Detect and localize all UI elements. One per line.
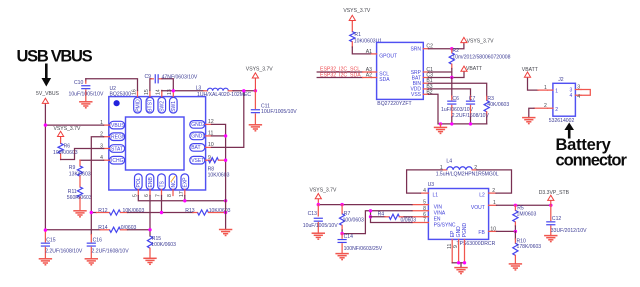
capacitor C14 bbox=[338, 234, 383, 254]
svg-text:R1: R1 bbox=[354, 32, 361, 38]
capacitor C12 bbox=[546, 205, 587, 235]
svg-text:EP: EP bbox=[450, 230, 456, 237]
J2 pin 4 bbox=[570, 93, 581, 100]
svg-text:10UF/1005/10V: 10UF/1005/10V bbox=[261, 109, 297, 115]
svg-text:D3.3VP_STB: D3.3VP_STB bbox=[539, 190, 570, 196]
svg-text:1: 1 bbox=[555, 88, 558, 94]
ground below C12 bbox=[544, 236, 557, 242]
svg-text:100K/0603: 100K/0603 bbox=[151, 242, 176, 248]
svg-text:1M/0603: 1M/0603 bbox=[517, 211, 537, 217]
svg-text:SW1: SW1 bbox=[171, 101, 177, 112]
svg-text:10K/0603: 10K/0603 bbox=[208, 172, 230, 178]
U2 pin 12 GND2 bbox=[190, 119, 214, 128]
U1 pin C3 BAT bbox=[412, 73, 433, 82]
svg-text:PGND: PGND bbox=[462, 222, 468, 237]
svg-text:C6: C6 bbox=[452, 96, 459, 102]
resistor R10 bbox=[513, 231, 542, 264]
node VSYS_3.7V at VBUS bbox=[44, 123, 47, 126]
U2 pin 6 ENB bbox=[144, 174, 154, 197]
svg-text:BTST: BTST bbox=[148, 99, 154, 112]
svg-text:VSYS_3.7V: VSYS_3.7V bbox=[310, 187, 338, 193]
svg-text:17: 17 bbox=[179, 191, 185, 197]
svg-text:560R/0603: 560R/0603 bbox=[67, 195, 92, 201]
svg-text:4: 4 bbox=[570, 93, 573, 99]
wire R1 to GPOUT bbox=[352, 47, 371, 54]
svg-text:5: 5 bbox=[132, 194, 138, 197]
svg-text:VIN: VIN bbox=[434, 205, 443, 211]
svg-text:VSYS_3.7V: VSYS_3.7V bbox=[54, 126, 82, 132]
svg-text:VSYS_3.7V: VSYS_3.7V bbox=[343, 8, 371, 14]
svg-text:10uF/1005/10V: 10uF/1005/10V bbox=[303, 223, 338, 229]
ground below C13 bbox=[312, 233, 325, 239]
svg-text:C13: C13 bbox=[308, 211, 318, 217]
wire GND1 row bbox=[212, 135, 226, 137]
wire TS node row bbox=[128, 212, 194, 214]
U3 pin 8 VINA bbox=[412, 206, 446, 217]
capacitor C7 bbox=[452, 96, 490, 124]
U3 pin 1 VOUT bbox=[471, 200, 497, 211]
capacitor C6 bbox=[441, 96, 474, 124]
svg-text:VBATT: VBATT bbox=[522, 67, 538, 73]
connector J2 body bbox=[553, 83, 576, 116]
wire R6 to STAT bbox=[61, 149, 104, 160]
U2 pin 7 TS bbox=[156, 174, 166, 197]
svg-text:POL: POL bbox=[136, 177, 142, 187]
svg-text:A1: A1 bbox=[366, 49, 372, 55]
wire VIN row bbox=[318, 204, 412, 206]
svg-text:11: 11 bbox=[447, 244, 453, 249]
svg-text:C12: C12 bbox=[552, 216, 562, 222]
resistor R11 bbox=[67, 187, 92, 211]
svg-text:L3: L3 bbox=[196, 85, 202, 91]
ground below R15 bbox=[143, 258, 156, 264]
svg-text:L4: L4 bbox=[446, 159, 452, 165]
wire 5V_VBUS rail bbox=[44, 105, 46, 230]
resistor R15 bbox=[147, 236, 176, 258]
power flag D3.3VP_STB bbox=[548, 195, 554, 205]
wire SDA bbox=[317, 77, 371, 79]
svg-text:4: 4 bbox=[577, 94, 580, 100]
black arrow up bbox=[564, 123, 574, 139]
U2 reference designator bbox=[110, 86, 132, 97]
svg-text:R6: R6 bbox=[64, 144, 71, 150]
wire POL EXP row bbox=[138, 196, 225, 201]
svg-text:GPOUT: GPOUT bbox=[379, 54, 397, 60]
U2 pin 15 BTST bbox=[144, 89, 154, 113]
wire VSS to ground bus bbox=[429, 94, 487, 124]
wire VBATT to J2 pin1 bbox=[528, 79, 548, 91]
svg-text:VSS: VSS bbox=[411, 92, 422, 98]
U2 pin 2 REGN bbox=[100, 132, 126, 141]
svg-text:C15: C15 bbox=[46, 237, 56, 243]
wire VINA EN PS/SYNC tie bbox=[371, 211, 413, 223]
svg-text:47NF/0603/10V: 47NF/0603/10V bbox=[162, 74, 198, 80]
op-amp U2 charger BQ25300 body bbox=[109, 97, 206, 190]
wire FB row bbox=[497, 230, 516, 232]
U2 pin 13 SW1 bbox=[167, 89, 177, 113]
wire U3 ground bus bbox=[452, 262, 464, 264]
svg-text:SRN: SRN bbox=[410, 47, 421, 53]
svg-text:STAT: STAT bbox=[111, 146, 123, 152]
U2 pin 11 GND1 bbox=[190, 131, 214, 140]
wire GND2 GND1 VSET vertical rail bbox=[212, 124, 226, 229]
wire EXP pin down bbox=[184, 196, 186, 201]
svg-text:7: 7 bbox=[423, 218, 426, 224]
svg-text:GND2: GND2 bbox=[191, 122, 205, 128]
svg-text:C7: C7 bbox=[469, 96, 476, 102]
U2 pin 3 STAT bbox=[100, 143, 124, 152]
svg-text:GND1: GND1 bbox=[191, 134, 205, 140]
svg-text:5: 5 bbox=[423, 200, 426, 206]
svg-text:R14: R14 bbox=[98, 225, 108, 231]
svg-text:EXP: EXP bbox=[183, 177, 189, 188]
resistor R5 bbox=[513, 205, 537, 231]
wire VBUS row bbox=[45, 124, 103, 126]
svg-text:13K/0603: 13K/0603 bbox=[69, 171, 91, 177]
svg-text:6: 6 bbox=[144, 194, 150, 197]
resistor R3 bbox=[484, 96, 509, 124]
black arrow down bbox=[42, 64, 52, 87]
J2 pin 1 bbox=[544, 85, 558, 94]
svg-text:C10: C10 bbox=[74, 80, 84, 86]
U2 pin 1 VBUS bbox=[100, 120, 125, 129]
svg-text:SW2: SW2 bbox=[160, 101, 166, 112]
svg-text:1UH/XAL4020-102MEC: 1UH/XAL4020-102MEC bbox=[197, 92, 251, 98]
power flag VBATT (U1) bbox=[461, 66, 467, 72]
op-amp U1 gauge BQ27220 body bbox=[377, 42, 424, 99]
ground below C11 bbox=[249, 125, 262, 131]
svg-text:FB: FB bbox=[478, 230, 485, 236]
U1 pin B3 VDD bbox=[410, 84, 432, 93]
ground U1 bus bbox=[434, 124, 447, 133]
U3 pin 9 GND bbox=[453, 226, 462, 263]
svg-text:VBUS: VBUS bbox=[111, 123, 125, 129]
svg-text:2.2UF/1608/10V: 2.2UF/1608/10V bbox=[45, 249, 83, 255]
inductor L4 bbox=[436, 159, 499, 178]
svg-text:2: 2 bbox=[555, 107, 558, 113]
svg-text:VSYS_3.7V: VSYS_3.7V bbox=[246, 66, 274, 72]
svg-text:1.5uH/LQM2HPN1R5MG0L: 1.5uH/LQM2HPN1R5MG0L bbox=[436, 172, 499, 178]
U2 pin 17 EXP bbox=[179, 174, 189, 197]
resistor R13 bbox=[185, 208, 230, 215]
U2 pin 5 POL bbox=[132, 174, 142, 197]
svg-text:9: 9 bbox=[453, 245, 459, 248]
U3 pin 11 EP bbox=[447, 230, 456, 263]
resistor R12 bbox=[97, 208, 145, 215]
U3 pin 7 PS/SYNC bbox=[412, 218, 456, 229]
inductor L3 bbox=[196, 85, 252, 98]
op-amp U3 TPS63000 body bbox=[428, 189, 488, 240]
wire SRN row bbox=[429, 44, 464, 49]
svg-text:ICHG: ICHG bbox=[111, 158, 124, 164]
svg-text:connector: connector bbox=[556, 152, 628, 170]
U1 pin C1 SRP bbox=[411, 67, 433, 76]
wire TS pin down bbox=[161, 196, 163, 213]
wire VDD row to C7 bbox=[429, 89, 471, 96]
wire BAT row bbox=[429, 72, 465, 78]
ground below C14 bbox=[335, 254, 348, 260]
U3 pin 2 L2 stub bbox=[489, 188, 496, 194]
svg-text:7: 7 bbox=[156, 194, 162, 197]
wire R12 row REGN to TS bbox=[91, 212, 96, 214]
svg-text:2.2UF/1608/10V: 2.2UF/1608/10V bbox=[452, 113, 490, 119]
svg-text:100/0603: 100/0603 bbox=[343, 218, 364, 224]
svg-text:R7: R7 bbox=[344, 211, 351, 217]
resistor R6 bbox=[53, 139, 78, 160]
wire J2 pin3-pin4 loop bbox=[581, 90, 590, 96]
svg-text:R9: R9 bbox=[69, 165, 76, 171]
wire L3 to VSYS node bbox=[233, 90, 255, 92]
resistor R2 bbox=[449, 48, 510, 77]
svg-text:16: 16 bbox=[131, 89, 137, 95]
power flag VSYS_3.7V (top) bbox=[252, 73, 258, 91]
capacitor C9 bbox=[145, 74, 198, 91]
svg-text:C14: C14 bbox=[344, 234, 354, 240]
U1 pin B2 VSS bbox=[411, 89, 433, 98]
svg-text:10: 10 bbox=[490, 226, 496, 232]
wire BAT to VSYS node bbox=[212, 91, 244, 148]
ground below C10 bbox=[79, 102, 92, 108]
U1 pin A3 SCL bbox=[366, 67, 389, 78]
svg-text:PS/SYNC: PS/SYNC bbox=[434, 222, 456, 228]
svg-text:15: 15 bbox=[144, 89, 150, 95]
title Battery connector bbox=[556, 136, 628, 170]
svg-text:5V_VBUS: 5V_VBUS bbox=[36, 91, 60, 97]
U1 pin C2 SRN bbox=[410, 44, 433, 53]
svg-text:0/0603: 0/0603 bbox=[401, 218, 417, 224]
U2 pin 4 ICHG bbox=[100, 155, 124, 164]
wire VOUT row bbox=[497, 204, 552, 206]
U2 pin 14 SW2 bbox=[156, 89, 166, 113]
power flag VSYS_3.7V (R6) bbox=[58, 131, 64, 139]
U3 pin 5 VIN bbox=[412, 200, 442, 211]
svg-text:PMID: PMID bbox=[135, 99, 141, 112]
wire ENB down to R15 bbox=[149, 196, 151, 237]
svg-text:BQ25300: BQ25300 bbox=[110, 91, 132, 97]
wire J2 pin2 to ground bbox=[529, 108, 548, 117]
wire BIN row to R3 bbox=[429, 83, 487, 96]
wire bottom 5V bus bbox=[45, 229, 100, 231]
capacitor C16 bbox=[87, 235, 129, 259]
wire SCL bbox=[317, 71, 371, 73]
U2 pin 16 PMID bbox=[131, 89, 141, 113]
U1 pin A1 GPOUT bbox=[366, 49, 397, 60]
svg-text:BQ27220YZFT: BQ27220YZFT bbox=[377, 101, 411, 107]
U1 pin B1 BIN bbox=[413, 78, 433, 87]
svg-text:2.2UF/1608/10V: 2.2UF/1608/10V bbox=[92, 249, 130, 255]
resistor R8 bbox=[208, 158, 230, 179]
svg-text:3: 3 bbox=[577, 84, 580, 90]
svg-text:L2: L2 bbox=[479, 193, 485, 199]
wire ICHG to R9 bbox=[80, 159, 104, 161]
svg-text:2: 2 bbox=[492, 188, 495, 194]
svg-text:TS: TS bbox=[159, 180, 165, 187]
wire R14 to ENB node bbox=[128, 229, 151, 231]
U2 pin 10 BAT bbox=[190, 142, 214, 151]
ground below R10 bbox=[509, 264, 522, 270]
ground below R13 rail bbox=[219, 230, 232, 236]
svg-text:U3: U3 bbox=[428, 182, 435, 188]
svg-text:1: 1 bbox=[544, 85, 547, 91]
resistor R1 bbox=[350, 22, 376, 47]
wire BAT node to C6 bbox=[451, 78, 453, 97]
capacitor C11 bbox=[251, 91, 297, 125]
svg-text:J2: J2 bbox=[558, 77, 564, 83]
resistor R9 bbox=[69, 160, 91, 187]
svg-text:ENB: ENB bbox=[148, 177, 154, 188]
svg-text:SDA: SDA bbox=[379, 77, 390, 83]
power flag VSYS_3.7V (R2) bbox=[461, 37, 467, 43]
U1 pin A2 SDA bbox=[366, 73, 390, 84]
svg-text:R13: R13 bbox=[185, 208, 195, 214]
ground below R11 bbox=[73, 211, 86, 217]
power flag VBATT (J2) bbox=[524, 72, 530, 79]
U2 pin 8 NC bbox=[167, 174, 177, 197]
svg-text:R2: R2 bbox=[452, 48, 459, 54]
svg-text:C16: C16 bbox=[93, 237, 103, 243]
resistor R14 bbox=[98, 225, 136, 232]
svg-text:178K/0603: 178K/0603 bbox=[517, 244, 542, 250]
U3 pin 10 FB bbox=[478, 226, 496, 236]
J2 pin 3 bbox=[570, 84, 581, 93]
svg-text:33UF/2012/10V: 33UF/2012/10V bbox=[551, 228, 587, 234]
U3 pin 4 L1 stub bbox=[421, 188, 429, 194]
ground below C16 bbox=[85, 259, 98, 265]
svg-text:8: 8 bbox=[167, 194, 173, 197]
svg-text:VSET: VSET bbox=[191, 158, 204, 164]
svg-text:REGN: REGN bbox=[111, 135, 126, 141]
wire SW1 stub bbox=[172, 90, 174, 92]
svg-text:14: 14 bbox=[156, 89, 162, 95]
wire SW2 SW1 row bbox=[162, 90, 204, 92]
svg-text:10K/0603: 10K/0603 bbox=[354, 38, 376, 44]
wire SRP row bbox=[429, 71, 452, 73]
power flag VSYS_3.7V (U1) bbox=[349, 15, 355, 22]
J2 pin 2 bbox=[544, 103, 558, 113]
svg-text:532614002: 532614002 bbox=[549, 118, 575, 124]
svg-text:VBATT: VBATT bbox=[466, 66, 482, 72]
wire PMID to C10 bbox=[86, 79, 138, 91]
svg-text:R4: R4 bbox=[378, 211, 385, 217]
capacitor C10 bbox=[69, 79, 104, 102]
power flag VSYS_3.7V (U3) bbox=[315, 194, 321, 205]
U3 pin 6 EN bbox=[412, 212, 441, 223]
svg-text:40K/0603: 40K/0603 bbox=[487, 102, 509, 108]
ground J2 bbox=[522, 118, 535, 124]
svg-text:100NF/0603/25V: 100NF/0603/25V bbox=[344, 246, 383, 252]
resistor R4 bbox=[371, 211, 417, 223]
wire L4 left loop bbox=[407, 170, 443, 193]
wire L4 right loop bbox=[477, 170, 512, 193]
U2 pin 9 VSET bbox=[190, 155, 212, 164]
svg-text:10K/0603: 10K/0603 bbox=[209, 208, 231, 214]
svg-text:1: 1 bbox=[493, 200, 496, 206]
ground U3 bbox=[454, 263, 467, 274]
svg-text:USB VBUS: USB VBUS bbox=[17, 48, 93, 66]
wire REGN vertical bbox=[91, 137, 103, 235]
svg-text:BAT: BAT bbox=[191, 145, 200, 151]
svg-text:VOUT: VOUT bbox=[471, 205, 485, 211]
svg-text:10m/2012/580060720008: 10m/2012/580060720008 bbox=[452, 55, 510, 61]
svg-text:4: 4 bbox=[423, 188, 426, 194]
svg-text:C9: C9 bbox=[145, 74, 152, 80]
capacitor C13 bbox=[303, 205, 338, 234]
svg-text:TPS63000DRCR: TPS63000DRCR bbox=[457, 241, 496, 247]
power flag 5V_VBUS bbox=[42, 98, 48, 105]
svg-text:R12: R12 bbox=[98, 208, 108, 214]
svg-text:10uF/1005/10V: 10uF/1005/10V bbox=[69, 92, 104, 98]
ground below C15 bbox=[39, 259, 52, 265]
resistor R7 bbox=[340, 205, 365, 234]
capacitor C15 bbox=[41, 230, 83, 258]
wire R7 C14 node to VINA bbox=[342, 211, 412, 234]
svg-text:VSYS_3.7V: VSYS_3.7V bbox=[467, 38, 495, 44]
svg-text:L1: L1 bbox=[433, 193, 439, 199]
U3 pin PGND bbox=[462, 222, 468, 262]
